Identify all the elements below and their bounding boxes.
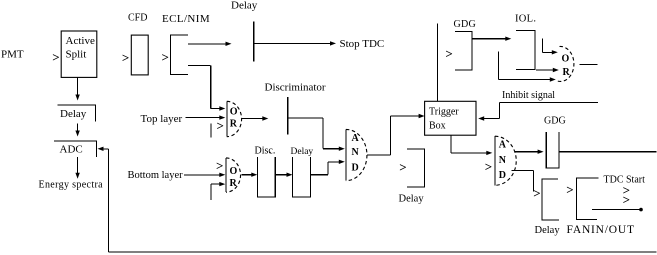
wire stub below OR1: [210, 124, 212, 138]
svg-text:>: >: [122, 50, 129, 65]
wire Disc to Delay: [275, 173, 292, 177]
svg-text:FANIN/OUT: FANIN/OUT: [567, 224, 635, 236]
svg-text:>: >: [623, 192, 630, 207]
delay element (vertical bar): [253, 22, 255, 62]
wire Inhibit to Trigger Box: [478, 102, 499, 120]
box Trigger Box: [425, 101, 476, 135]
wire bottom feedback line: [109, 149, 657, 252]
svg-text:Trigger: Trigger: [429, 107, 459, 118]
svg-text:Top layer: Top layer: [141, 113, 183, 125]
box IOL (open left): [516, 30, 535, 69]
box Disc (open top U): [257, 157, 275, 197]
svg-text:A: A: [499, 140, 507, 151]
wire Top layer to OR1: [185, 115, 225, 119]
svg-text:Bottom layer: Bottom layer: [128, 170, 184, 181]
wire ECL/NIM output 2 down to OR1: [188, 66, 225, 111]
svg-text:D: D: [499, 170, 506, 181]
svg-text:ADC: ADC: [60, 144, 83, 156]
wire Trigger Box up to GDG: [436, 24, 438, 102]
svg-text:R: R: [230, 178, 238, 189]
wire Active Split to Delay: [75, 77, 79, 100]
box ADC (partial top+right): [54, 141, 96, 157]
wire Bottom layer to OR2: [184, 173, 225, 177]
svg-text:N: N: [499, 155, 507, 166]
svg-text:PMT: PMT: [1, 49, 24, 61]
svg-text:Active: Active: [66, 35, 95, 47]
wire GDG2 output to right edge: [559, 151, 657, 153]
wire IOL bypass down to OR3 top input: [543, 39, 558, 55]
wire ECL/NIM output 1 to delay line: [188, 42, 231, 46]
wire ADC gate feedback arrow: [98, 147, 109, 151]
svg-text:Delay: Delay: [60, 108, 87, 120]
svg-text:Energy spectra: Energy spectra: [39, 180, 104, 191]
svg-text:>: >: [216, 158, 223, 173]
OR gate U4 (dashed circle): [556, 46, 574, 81]
box GDG (open left): [455, 32, 472, 71]
box CFD: [131, 35, 148, 75]
wire AND1 output to Trigger Box: [367, 114, 425, 155]
svg-text:ECL/NIM: ECL/NIM: [162, 13, 210, 25]
wire ADC to Energy spectra: [75, 157, 79, 179]
wire AND2 output to GDG2: [515, 150, 544, 154]
OR gate U2 (bottom layer OR): [226, 158, 241, 192]
svg-text:Box: Box: [429, 121, 446, 132]
svg-text:>: >: [533, 185, 540, 200]
svg-text:Delay: Delay: [231, 0, 258, 12]
svg-text:Delay: Delay: [399, 194, 425, 205]
wire Delay to AND1 lower input: [311, 160, 345, 175]
wire TDC start output line with dot: [592, 208, 643, 212]
wire OR2 output to Disc: [242, 173, 258, 177]
wire Inhibit signal line: [499, 101, 598, 103]
AND gate U3: [346, 129, 367, 180]
wire OR3 output: [580, 64, 598, 66]
box Delay2 (open right bracket): [542, 179, 559, 220]
svg-text:CFD: CFD: [128, 13, 147, 24]
wire AND2 lower output down to Delay2: [512, 170, 534, 191]
box Active Split: [61, 31, 97, 77]
svg-text:Split: Split: [66, 49, 87, 61]
svg-text:Inhibit signal: Inhibit signal: [502, 90, 555, 101]
wire GDG output to IOL: [472, 37, 511, 41]
box Delay row (open top U): [293, 157, 311, 197]
wire GDG branch to OR3 bottom input: [498, 51, 556, 81]
svg-text:A: A: [352, 133, 360, 144]
svg-text:R: R: [563, 67, 571, 78]
svg-text:GDG: GDG: [544, 116, 566, 127]
wire delay to Stop TDC: [254, 41, 336, 45]
OR gate U1 (top layer OR): [227, 101, 242, 136]
svg-text:Delay: Delay: [535, 225, 561, 236]
discriminator element (vertical bar): [287, 97, 289, 134]
wire Trigger Box output to AND2: [451, 135, 492, 155]
svg-text:O: O: [230, 166, 238, 177]
svg-text:N: N: [352, 147, 360, 158]
svg-text:>: >: [399, 159, 406, 174]
wire IOL output to OR3 middle input: [536, 68, 559, 72]
svg-text:Delay: Delay: [291, 147, 314, 157]
svg-text:R: R: [230, 118, 238, 129]
svg-text:>: >: [445, 46, 452, 61]
svg-text:Discriminator: Discriminator: [265, 82, 326, 94]
svg-text:Stop TDC: Stop TDC: [340, 38, 385, 50]
svg-text:O: O: [562, 54, 570, 65]
svg-text:IOL.: IOL.: [515, 14, 536, 25]
box ECL/NIM (left bracket): [171, 35, 188, 75]
wire Delay to ADC: [75, 123, 79, 136]
svg-text:>: >: [566, 182, 573, 197]
wire OR1 output to discriminator: [242, 116, 268, 120]
svg-text:>: >: [162, 50, 169, 65]
wire discriminator to AND1 upper input: [288, 118, 345, 151]
svg-text:Disc.: Disc.: [255, 146, 276, 157]
svg-text:>: >: [217, 118, 224, 133]
box Delay3 (open left bracket): [407, 149, 425, 187]
box GDG2 (open top U): [546, 132, 559, 168]
box Delay (left chain, partial top+right): [57, 105, 95, 121]
wire OR2 bottom input with stub: [211, 182, 225, 200]
AND gate U5: [495, 136, 516, 185]
svg-text:O: O: [230, 106, 238, 117]
svg-text:>: >: [485, 159, 492, 174]
svg-text:>: >: [52, 50, 59, 65]
svg-text:D: D: [352, 163, 359, 174]
box FANIN/OUT (open right bracket): [576, 178, 598, 220]
svg-text:GDG: GDG: [454, 19, 477, 30]
